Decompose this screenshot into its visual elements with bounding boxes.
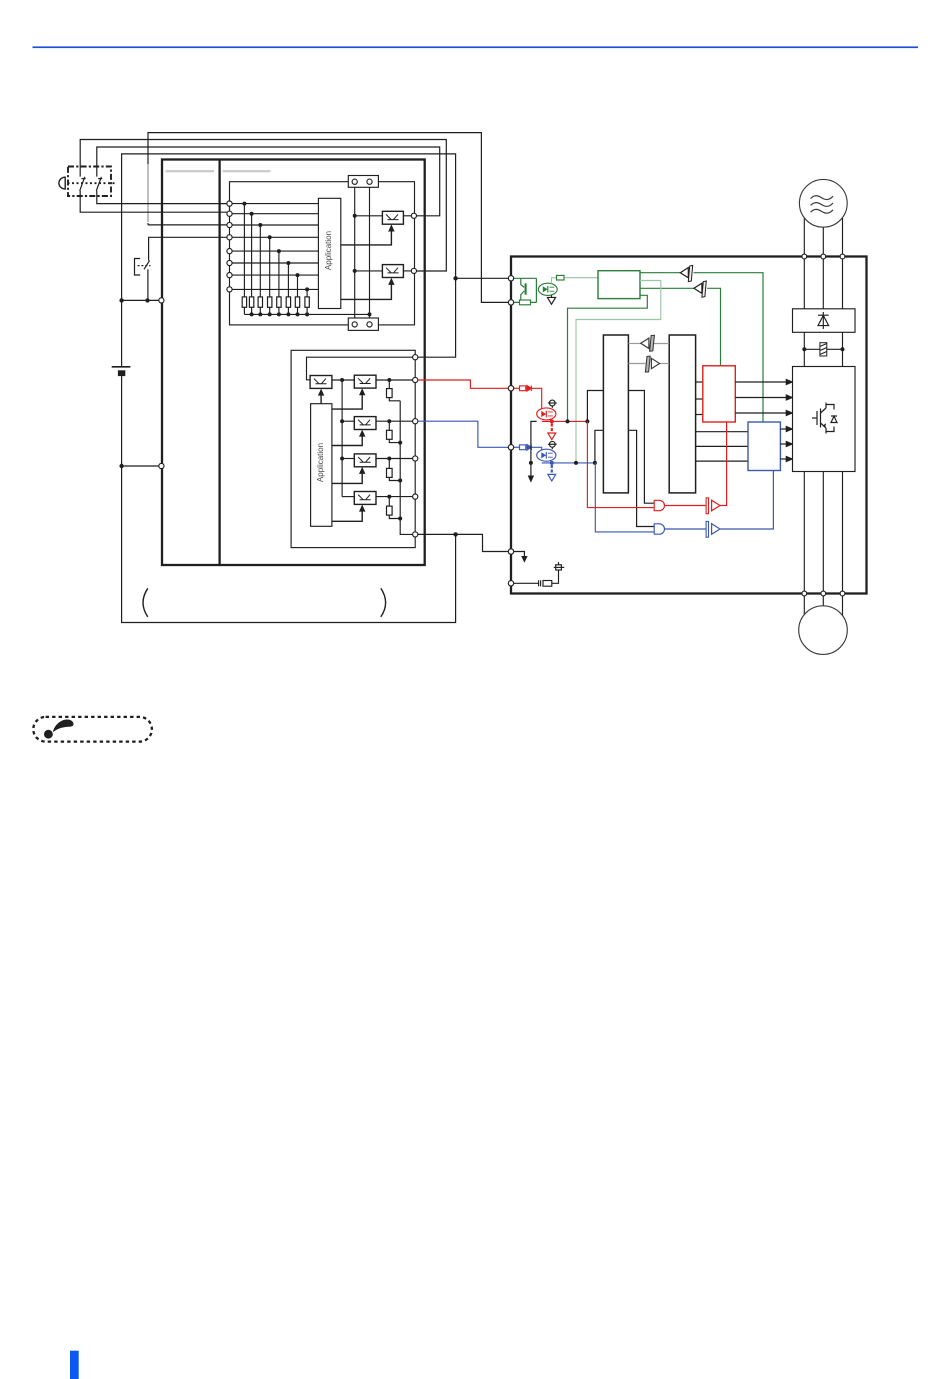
STO A test pulse arrow red dashed	[548, 424, 556, 440]
wire W3 (E-stop contact B loop)	[97, 147, 440, 216]
wire W1 (PLC input row3 loop to drive 0V terminal)	[148, 133, 508, 303]
STO B test pulse arrow blue dashed	[548, 465, 556, 481]
Q3 drive arrow	[332, 467, 366, 484]
bus junction dots	[250, 312, 372, 316]
ground arrowhead	[528, 476, 534, 483]
PE filter network	[514, 562, 565, 586]
drive left terminals	[508, 276, 513, 586]
rail junction dots	[398, 441, 402, 521]
opto output wires	[376, 380, 413, 497]
wire W1 grey segment	[147, 164, 149, 222]
terminal block bottom	[348, 318, 378, 330]
STO B logic route black under ASIC	[595, 430, 654, 526]
STO B input channel blue	[514, 447, 595, 463]
current source symbol above	[548, 400, 557, 408]
STO A opto red	[537, 408, 556, 420]
STO B direct route blue	[595, 463, 654, 532]
big parenthesis left	[143, 588, 148, 617]
iso buffer G1 grey	[641, 335, 655, 351]
resistor light green	[557, 275, 565, 280]
ES1 contact A	[80, 177, 86, 191]
input lines to rectifier	[804, 259, 842, 309]
AND gate A red	[654, 500, 664, 510]
opto DI2 input wires	[355, 270, 414, 272]
DI1 drive arrow	[341, 224, 395, 245]
PLC rack outline	[162, 160, 425, 566]
junction battery lower	[119, 464, 123, 468]
input card frame	[230, 182, 415, 325]
gate drive A block red	[703, 366, 736, 422]
junction with return loop	[453, 532, 457, 536]
wires to motor	[804, 596, 842, 617]
STO A series resistor red	[520, 386, 526, 391]
junction W4/24V branch	[453, 276, 457, 280]
iso buffer G2 grey	[645, 356, 659, 372]
opto output terminals	[411, 213, 416, 273]
logic ground triangle	[547, 295, 555, 304]
supply to STO B channel light green	[576, 281, 661, 463]
STO A diode red	[527, 386, 531, 392]
big parenthesis right	[381, 588, 386, 617]
junction on 0V rail	[119, 298, 123, 302]
STO A input channel red	[514, 388, 588, 421]
gate drive A output arrows	[735, 380, 792, 416]
mains supply source	[799, 179, 847, 227]
opto output wire light green	[552, 278, 599, 284]
STO A direct route red	[587, 421, 654, 507]
battery lower lead and 2nd rail	[122, 376, 160, 466]
DC bus	[804, 332, 842, 366]
terminal block top	[348, 176, 378, 188]
DC bus junction dots	[802, 347, 806, 351]
terminal on PLC border lower	[159, 463, 164, 468]
iso buffer T1	[680, 265, 692, 281]
rail junction dots	[340, 378, 344, 461]
processor block	[669, 335, 695, 493]
buffer A red	[665, 422, 727, 514]
terminal on PLC border 0V	[159, 298, 164, 303]
ES1 contact B	[96, 177, 102, 191]
output terminals	[413, 355, 418, 537]
drop junction dots	[242, 202, 309, 292]
DC bus capacitor	[820, 343, 827, 356]
motor M	[799, 606, 848, 655]
DI2 drive arrow	[341, 278, 395, 300]
header rule	[33, 46, 919, 48]
drive enclosure	[511, 257, 867, 594]
wire W4 (24V rail riser to lower module and drive)	[122, 154, 509, 357]
motor output lines	[804, 472, 842, 592]
grey link wires	[628, 344, 669, 364]
junction switch/0V	[145, 298, 149, 302]
mains input terminals	[802, 254, 845, 259]
input resistors R1-R8	[242, 297, 309, 307]
supply feed to gate drive A green	[640, 288, 721, 366]
STO A logic route black under ASIC	[587, 391, 654, 504]
common return and ground arrow	[531, 421, 537, 475]
gate drive B output arrows	[780, 427, 792, 462]
supply feed to gate drive B green	[640, 273, 763, 422]
0V rail	[122, 299, 160, 301]
Q1a drive arrow	[318, 389, 324, 404]
STO B diode blue	[527, 445, 531, 451]
svg-text:Application: Application	[324, 231, 333, 270]
resistor bodies	[387, 389, 393, 515]
junction dots STO channels	[529, 419, 597, 465]
input row wires	[230, 204, 319, 290]
STO A red wire	[418, 380, 508, 388]
resistor on 0V green	[520, 300, 531, 305]
terminal O1 feed wire	[307, 357, 416, 380]
output common to drive wire	[418, 534, 508, 551]
opto coupler Q1a	[310, 376, 332, 389]
output junction dots	[387, 378, 391, 499]
Q4 drive arrow	[332, 505, 366, 522]
opto coupler Q4	[354, 492, 376, 505]
IGBT power module	[793, 367, 856, 472]
staggered drop wires	[244, 204, 307, 297]
switching power supply block green	[598, 271, 640, 299]
battery 24V supply	[112, 300, 131, 366]
footprint note icon	[33, 717, 152, 742]
bottom return loop wire	[122, 466, 456, 623]
ASIC block	[603, 335, 628, 493]
rectifier block	[793, 309, 856, 333]
rail junction dots	[353, 214, 357, 273]
opto DI1 input wires	[355, 215, 414, 217]
emergency stop button ES1	[59, 167, 117, 197]
resistor tails and common bus	[244, 307, 369, 314]
supply to STO A channel dark green	[568, 295, 648, 421]
opto coupler DI2	[382, 265, 403, 278]
STO B blue wire	[418, 421, 508, 447]
opto coupler DI1	[382, 211, 403, 224]
internal supply rails	[355, 182, 370, 325]
opto coupler PS green	[538, 283, 557, 295]
footer page marker bar	[70, 1351, 79, 1379]
pull resistors and common rail	[389, 380, 415, 534]
svg-text:Application: Application	[316, 443, 325, 482]
opto chain wire and rail	[332, 380, 354, 497]
drive output common arrow	[514, 552, 528, 563]
current source symbol above B	[548, 441, 557, 449]
opto coupler Q2	[354, 417, 376, 430]
buffer B blue	[665, 471, 774, 538]
motor terminals	[802, 591, 845, 596]
application block U2	[311, 404, 332, 527]
Q1b drive arrow	[332, 388, 366, 409]
iso buffer T2	[694, 281, 706, 297]
STO B opto blue	[537, 449, 556, 461]
Q2 drive arrow	[332, 430, 366, 446]
STO B series resistor blue	[520, 445, 526, 450]
opto coupler Q3	[354, 454, 376, 467]
output card frame	[291, 350, 415, 547]
PLC rack divider	[218, 160, 220, 566]
AND gate B blue	[654, 524, 664, 534]
processor to gate drive A wires	[696, 382, 703, 415]
wire W2 (E-stop contact A loop)	[80, 140, 446, 272]
gate drive B block blue	[748, 422, 780, 471]
grey label line 2	[223, 170, 271, 172]
opto coupler Q1b	[354, 375, 376, 388]
24V input network green	[514, 278, 537, 302]
grey label line 1	[166, 170, 215, 172]
processor to gate drive B wires	[696, 432, 748, 461]
application block U1	[318, 198, 340, 308]
supply wires to drive	[804, 218, 842, 254]
input terminals DI circles	[227, 201, 232, 292]
feedback contact K1	[135, 237, 319, 300]
